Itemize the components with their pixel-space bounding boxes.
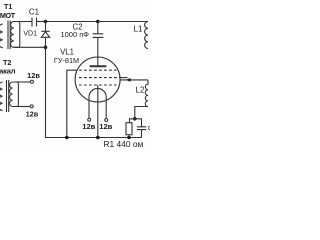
wire anode lead up to C2 bbox=[97, 37, 99, 66]
node F bbox=[133, 117, 137, 121]
inductor L2 bbox=[145, 80, 148, 107]
wire filament right leg bbox=[105, 97, 107, 118]
wire grid2 to L2 bbox=[120, 79, 148, 81]
wire L2 bottom to node F bbox=[135, 107, 148, 119]
T2 core bbox=[7, 80, 9, 112]
svg-text:Т1: Т1 bbox=[4, 2, 12, 11]
svg-text:С3: С3 bbox=[148, 126, 150, 133]
capacitor C1 bbox=[32, 18, 37, 27]
wire node F to R1 bbox=[130, 119, 135, 123]
node E filament-ground bbox=[96, 136, 100, 140]
node D grid1-ground bbox=[65, 136, 69, 140]
svg-text:Накал: Накал bbox=[0, 67, 16, 76]
node A bbox=[44, 20, 48, 24]
svg-text:С1: С1 bbox=[29, 7, 40, 16]
tube grid 3 bbox=[79, 84, 117, 86]
wire node B to L1 corner bbox=[98, 21, 148, 23]
diode VD1 bbox=[41, 31, 49, 37]
capacitor C3 bbox=[137, 127, 146, 130]
wire T2 top lead bbox=[16, 81, 30, 83]
svg-text:12в: 12в bbox=[26, 109, 39, 118]
wire node C down to bottom rail bbox=[46, 47, 142, 137]
node C bbox=[44, 46, 48, 50]
wire grid2 dash extension bbox=[120, 77, 128, 79]
tube filament bbox=[89, 88, 106, 97]
wire R1 to rail bbox=[128, 135, 130, 138]
wire grid1 exit left bbox=[67, 70, 77, 137]
T1 right winding bbox=[11, 22, 14, 48]
svg-text:12в: 12в bbox=[82, 122, 95, 131]
T1 left winding bbox=[0, 24, 3, 48]
svg-text:VD1: VD1 bbox=[23, 30, 37, 37]
transformer T2 bbox=[0, 80, 18, 112]
T1 right bus bbox=[14, 22, 20, 48]
svg-text:ГУ-81М: ГУ-81М bbox=[54, 56, 79, 65]
svg-text:Т2: Т2 bbox=[3, 58, 11, 67]
wire T1 top to C1 and rail bbox=[14, 21, 32, 23]
inductor L1 bbox=[145, 22, 148, 49]
wire node A down to VD1 bbox=[45, 22, 47, 31]
svg-text:1000 пФ: 1000 пФ bbox=[60, 30, 89, 39]
svg-text:МОТ: МОТ bbox=[0, 11, 16, 20]
tube VL1 envelope bbox=[75, 57, 120, 102]
node B bbox=[96, 20, 100, 24]
transformer T1 bbox=[0, 21, 20, 50]
node G R1-rail bbox=[127, 136, 131, 140]
terminal 12v bottom of T2 bbox=[30, 105, 33, 108]
tube grid 2 bbox=[79, 77, 120, 79]
wire T2 bottom lead bbox=[16, 106, 30, 108]
terminal 12v top of T2 bbox=[30, 80, 33, 83]
wire node A to node B bbox=[46, 21, 98, 23]
capacitor C2 bbox=[93, 34, 104, 38]
wire VD1 to node C bbox=[45, 37, 47, 47]
wire C2 to node B bbox=[97, 22, 99, 34]
tube grid 1 bbox=[79, 69, 117, 71]
wire C1 to node A bbox=[37, 21, 46, 23]
arrow toward tube bbox=[126, 78, 131, 82]
T2 left winding bbox=[0, 82, 3, 110]
wire node F to C3 bbox=[135, 119, 142, 127]
svg-text:12в: 12в bbox=[99, 122, 112, 131]
resistor R1 bbox=[126, 123, 132, 135]
svg-text:L2: L2 bbox=[136, 86, 145, 95]
T1 core bbox=[8, 21, 10, 50]
svg-text:12в: 12в bbox=[27, 71, 40, 80]
wire T1 bottom to node C bbox=[14, 46, 46, 48]
tube anode bbox=[90, 65, 107, 67]
terminal 12v tube left bbox=[88, 118, 91, 121]
terminal 12v tube right bbox=[105, 119, 108, 122]
wire grid3 to filament and ground rail bbox=[97, 85, 99, 138]
svg-text:R1 440 ом: R1 440 ом bbox=[104, 139, 144, 149]
svg-text:L1: L1 bbox=[134, 25, 143, 34]
wire C3 to rail bbox=[141, 130, 143, 138]
T2 right winding bbox=[10, 82, 13, 107]
T2 right bus bbox=[13, 82, 19, 107]
wire filament left leg bbox=[88, 97, 90, 118]
